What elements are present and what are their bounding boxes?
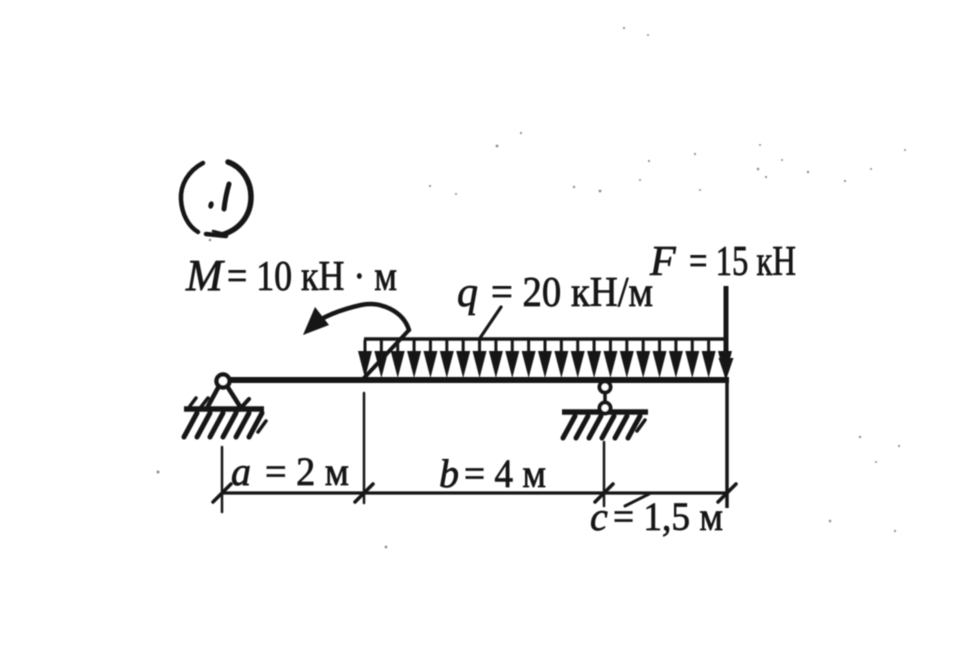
svg-text:a: a — [231, 449, 251, 494]
svg-text:= 20 кН/м: = 20 кН/м — [491, 270, 653, 316]
svg-text:= 10 кН · м: = 10 кН · м — [227, 254, 397, 300]
svg-text:M: M — [185, 251, 225, 300]
svg-text:F: F — [649, 239, 676, 285]
svg-text:= 15 кН: = 15 кН — [689, 239, 796, 285]
svg-text:= 2 м: = 2 м — [265, 449, 349, 494]
svg-text:= 1,5 м: = 1,5 м — [613, 494, 723, 539]
svg-text:q: q — [457, 270, 478, 316]
svg-text:b: b — [439, 451, 459, 496]
svg-text:= 4 м: = 4 м — [464, 451, 546, 496]
svg-text:c: c — [590, 494, 608, 539]
